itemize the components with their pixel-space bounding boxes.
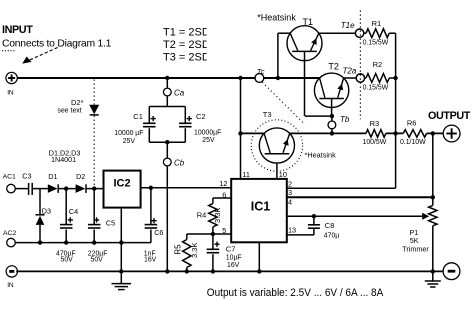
svg-text:C8: C8 <box>325 221 335 230</box>
svg-text:1N4001: 1N4001 <box>51 155 76 164</box>
svg-text:T3 = 2SD: T3 = 2SD <box>163 51 210 63</box>
svg-text:*Heatsink: *Heatsink <box>257 13 296 23</box>
svg-text:50V: 50V <box>91 257 104 264</box>
svg-text:5: 5 <box>222 226 226 235</box>
svg-text:3.3K: 3.3K <box>213 207 222 223</box>
svg-text:16V: 16V <box>227 262 240 269</box>
svg-text:Trimmer: Trimmer <box>402 244 429 253</box>
svg-text:C3: C3 <box>22 172 31 181</box>
svg-text:50V: 50V <box>61 257 74 264</box>
svg-text:4: 4 <box>288 197 292 206</box>
svg-text:R2: R2 <box>373 60 383 69</box>
svg-text:T2 = 2SD: T2 = 2SD <box>163 39 210 51</box>
svg-text:10000 µF: 10000 µF <box>114 130 143 137</box>
svg-text:Ca: Ca <box>174 89 185 98</box>
svg-text:see text: see text <box>58 108 82 115</box>
svg-text:R4: R4 <box>197 211 207 220</box>
svg-text:D2*: D2* <box>71 98 84 107</box>
svg-text:T2: T2 <box>328 62 339 72</box>
svg-text:R3: R3 <box>370 119 380 128</box>
svg-text:0.15/5W: 0.15/5W <box>363 85 389 92</box>
svg-text:25V: 25V <box>202 137 215 144</box>
svg-text:*Heatsink: *Heatsink <box>305 150 337 159</box>
svg-text:6: 6 <box>222 191 226 200</box>
svg-text:C2: C2 <box>196 112 206 121</box>
svg-text:100/5W: 100/5W <box>363 139 387 146</box>
svg-text:IC2: IC2 <box>113 177 130 189</box>
svg-text:C1: C1 <box>133 112 143 121</box>
svg-text:C7: C7 <box>226 245 236 254</box>
svg-text:T1e: T1e <box>341 21 355 30</box>
svg-text:Output is variable: 2.5V ... 6: Output is variable: 2.5V ... 6V / 6A ...… <box>207 287 384 299</box>
svg-text:2: 2 <box>288 179 292 188</box>
svg-text:D3: D3 <box>42 207 51 216</box>
svg-text:3: 3 <box>288 188 292 197</box>
svg-text:13: 13 <box>288 226 296 235</box>
svg-text:AC2: AC2 <box>3 230 16 237</box>
svg-text:T1 = 2SD: T1 = 2SD <box>163 26 210 38</box>
svg-text:T3: T3 <box>263 110 272 119</box>
svg-text:D2: D2 <box>76 172 85 181</box>
svg-text:D1: D1 <box>48 172 57 181</box>
svg-text:IC1: IC1 <box>251 199 271 213</box>
svg-text:INPUT: INPUT <box>2 24 33 36</box>
svg-text:470µ: 470µ <box>324 233 339 240</box>
svg-text:25V: 25V <box>123 138 136 145</box>
svg-text:IN: IN <box>7 282 14 289</box>
svg-text:AC1: AC1 <box>3 174 16 181</box>
svg-text:T2a: T2a <box>343 66 357 75</box>
svg-text:C6: C6 <box>154 228 163 237</box>
svg-text:3.3K: 3.3K <box>190 242 199 258</box>
svg-text:Tc: Tc <box>257 67 265 76</box>
svg-text:16V: 16V <box>144 257 157 264</box>
svg-text:Tb: Tb <box>340 115 350 124</box>
svg-text:T1: T1 <box>303 17 314 27</box>
svg-text:C4: C4 <box>69 207 78 216</box>
svg-text:10000µF: 10000µF <box>194 129 221 136</box>
svg-text:0.15/5W: 0.15/5W <box>363 40 389 47</box>
svg-text:OUTPUT: OUTPUT <box>428 110 471 122</box>
svg-text:R5: R5 <box>173 244 182 255</box>
svg-text:11: 11 <box>242 170 250 179</box>
svg-text:Cb: Cb <box>174 159 185 168</box>
svg-text:12: 12 <box>219 179 227 188</box>
svg-text:0.1/10W: 0.1/10W <box>400 139 426 146</box>
svg-text:IN: IN <box>7 89 14 96</box>
svg-text:R6: R6 <box>407 118 417 127</box>
svg-text:R1: R1 <box>372 19 382 28</box>
svg-text:C5: C5 <box>106 219 115 228</box>
svg-text:10µF: 10µF <box>226 254 242 261</box>
